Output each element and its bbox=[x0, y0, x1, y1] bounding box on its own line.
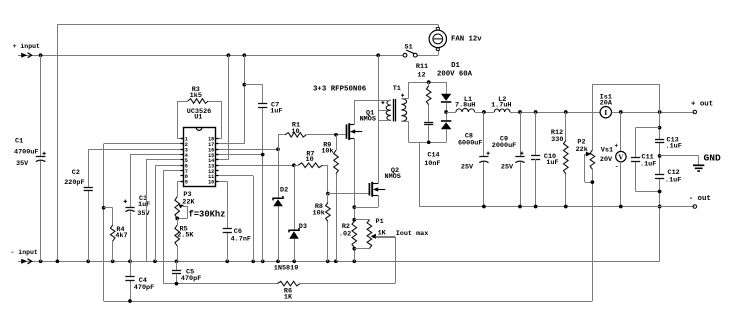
junction P2 wiper/bottom bbox=[591, 180, 595, 184]
wire R3 left leg bbox=[177, 101, 188, 139]
junction ground rail bbox=[39, 259, 43, 263]
wire L1 to L2 bbox=[475, 112, 495, 114]
svg-text:+ input: + input bbox=[13, 43, 40, 50]
wire pin15 to C7 line bbox=[219, 154, 263, 156]
junction P3 wiper/bottom bbox=[175, 217, 179, 221]
svg-text:10: 10 bbox=[208, 180, 214, 186]
resistor R1 bbox=[285, 122, 306, 138]
svg-text:P1: P1 bbox=[376, 218, 384, 226]
diode D3 schottky bbox=[289, 223, 307, 239]
svg-text:1K: 1K bbox=[284, 293, 293, 301]
svg-text:22K: 22K bbox=[182, 199, 195, 207]
junction GND tap bbox=[658, 154, 662, 158]
wire R1 to Q1 gate bbox=[306, 134, 346, 136]
wire S1 to fan bbox=[417, 50, 438, 55]
inductor L2 bbox=[491, 96, 511, 112]
wire pin9 to P3 bbox=[177, 181, 180, 196]
junction pin15/C7 bbox=[261, 153, 265, 157]
label f=30Khz bbox=[189, 210, 226, 220]
node - input terminal bbox=[11, 249, 41, 264]
capacitor C8 bbox=[458, 112, 490, 207]
junction ground rail bbox=[261, 259, 265, 263]
resistor R12 bbox=[551, 112, 568, 207]
svg-text:10nF: 10nF bbox=[424, 160, 440, 168]
wire ammeter bypass top bbox=[592, 84, 659, 86]
resistor R11 bbox=[416, 63, 431, 122]
junction R12 top bbox=[564, 110, 568, 114]
svg-text:NMOS: NMOS bbox=[360, 116, 376, 124]
junction ground rail bbox=[251, 259, 255, 263]
wire pin17 to +input bbox=[219, 55, 245, 144]
svg-text:S1: S1 bbox=[405, 44, 413, 52]
wire D3 vertical bbox=[294, 165, 296, 261]
diode D2 schottky bbox=[273, 187, 288, 207]
junction C11 top branch bbox=[658, 126, 662, 130]
svg-text:220pF: 220pF bbox=[64, 179, 84, 187]
svg-text:GND: GND bbox=[704, 152, 722, 163]
capacitor C5 bbox=[172, 261, 201, 283]
node - out terminal bbox=[689, 195, 711, 208]
junction ground rail bbox=[292, 259, 296, 263]
wire pin3 to C2 bbox=[88, 149, 180, 261]
svg-text:I: I bbox=[604, 108, 607, 117]
wire pin13 line bbox=[219, 165, 294, 167]
capacitor C4 bbox=[125, 277, 154, 293]
svg-text:.02: .02 bbox=[339, 230, 351, 238]
svg-text:470pF: 470pF bbox=[181, 275, 201, 283]
svg-text:Iout max: Iout max bbox=[396, 230, 429, 238]
wire +input rail bbox=[41, 55, 403, 57]
wire pin10 to C6 bbox=[219, 181, 228, 261]
svg-text:10k: 10k bbox=[321, 147, 333, 155]
svg-text:4k7: 4k7 bbox=[115, 232, 127, 240]
junction ground rail bbox=[153, 259, 157, 263]
junction R7/R8/Q2 gate bbox=[326, 192, 330, 196]
node + out terminal bbox=[691, 101, 713, 114]
junction -out vertical bbox=[658, 205, 662, 209]
wire D1 anode bottom bbox=[446, 129, 448, 142]
wire pin5 to ground bbox=[146, 160, 181, 262]
wire secondary bottom bbox=[401, 121, 446, 142]
svg-text:330: 330 bbox=[551, 136, 563, 144]
junction +input/C1 bbox=[39, 53, 43, 57]
potentiometer P1 bbox=[367, 218, 387, 249]
diode D1 top half bbox=[441, 94, 451, 102]
transformer T1 core bbox=[394, 99, 396, 121]
capacitor C14 bbox=[424, 123, 440, 168]
resistor R3 bbox=[188, 86, 209, 103]
svg-text:- out: - out bbox=[689, 195, 711, 203]
svg-text:7.8uH: 7.8uH bbox=[455, 102, 475, 110]
junction C5/R6 line bbox=[175, 282, 179, 286]
svg-text:22k: 22k bbox=[576, 146, 588, 154]
wire P1 top bbox=[354, 219, 369, 221]
meter Vs1 voltmeter bbox=[600, 112, 626, 207]
op-amp U1 UC3526 PWM controller bbox=[181, 108, 219, 187]
svg-text:10: 10 bbox=[291, 128, 299, 136]
svg-text:V: V bbox=[618, 153, 623, 161]
junction +input/center-tap bbox=[376, 53, 380, 57]
junction D1/L1 bbox=[444, 110, 448, 114]
wire primary center tap bbox=[378, 110, 387, 112]
wire pin2 feedback bbox=[104, 144, 593, 302]
capacitor C13 bbox=[655, 137, 682, 151]
ground GND bbox=[660, 152, 721, 171]
junction Vcc/C7 branch bbox=[242, 83, 246, 87]
wire ground rail bbox=[18, 261, 660, 263]
transformer T1 secondary bbox=[401, 94, 407, 122]
junction R2 bottom bbox=[352, 247, 356, 251]
svg-text:.1uF: .1uF bbox=[666, 143, 682, 151]
junction +input/pin17 branch bbox=[242, 53, 246, 57]
capacitor C10 bbox=[531, 112, 559, 207]
svg-text:10k: 10k bbox=[313, 210, 325, 218]
svg-text:-: - bbox=[615, 163, 619, 170]
junction C8 bottom bbox=[482, 205, 486, 209]
svg-text:D1: D1 bbox=[451, 62, 460, 70]
junction snubber bottom bbox=[427, 140, 431, 144]
junction pin2/R4 bbox=[102, 206, 106, 210]
capacitor C11 bbox=[631, 153, 656, 168]
svg-text:35V: 35V bbox=[137, 210, 150, 218]
capacitor C7 bbox=[258, 101, 282, 115]
wire Q2 source bbox=[354, 195, 378, 207]
junction ground rail bbox=[128, 259, 132, 263]
capacitor C1 bbox=[14, 138, 46, 169]
svg-text:1k5: 1k5 bbox=[190, 92, 202, 100]
wire R3 right leg bbox=[208, 101, 221, 139]
wire +out line bbox=[510, 112, 600, 114]
wire C4 branch bbox=[130, 261, 132, 301]
resistor R7 bbox=[298, 150, 322, 167]
capacitor C12 bbox=[655, 169, 681, 184]
wire C7 branch bbox=[244, 85, 262, 262]
svg-text:20A: 20A bbox=[600, 99, 613, 107]
svg-text:200V 60A: 200V 60A bbox=[437, 71, 473, 79]
svg-text:1uF: 1uF bbox=[546, 159, 558, 167]
capacitor C3 bbox=[124, 195, 151, 218]
svg-text:35V: 35V bbox=[16, 160, 29, 168]
node + input terminal bbox=[13, 43, 41, 58]
wire output node to L1 bbox=[446, 112, 456, 114]
wire pin6 to ground bbox=[155, 165, 181, 261]
junction C9 top bbox=[518, 110, 522, 114]
junction Q1/Q2 sources bbox=[352, 205, 356, 209]
wire D1 cathodes bbox=[446, 102, 448, 120]
svg-text:4.7nF: 4.7nF bbox=[231, 236, 251, 244]
potentiometer P2 bbox=[576, 139, 595, 183]
label D1 bbox=[437, 62, 473, 79]
junction pin13/D3 bbox=[292, 163, 296, 167]
wire pin16 to D2/R1 bbox=[219, 149, 279, 151]
wire P3 to R5 bbox=[177, 218, 179, 225]
svg-text:3+3 RFP50N06: 3+3 RFP50N06 bbox=[313, 86, 367, 94]
wire Q2 drain / center-tap line bbox=[378, 55, 380, 183]
junction C9 bottom bbox=[518, 205, 522, 209]
inductor L1 bbox=[455, 96, 475, 112]
svg-text:4700uF: 4700uF bbox=[14, 149, 38, 157]
label 3+3 RFP50N06 bbox=[313, 86, 367, 94]
switch S1 bbox=[403, 44, 417, 58]
resistor R4 bbox=[110, 225, 127, 241]
wire D1 anode top bbox=[446, 82, 448, 94]
svg-text:.1uF: .1uF bbox=[640, 160, 656, 168]
svg-text:NMOS: NMOS bbox=[385, 173, 401, 181]
junction ground rail bbox=[352, 259, 356, 263]
wire D2 vertical bbox=[278, 135, 280, 261]
svg-text:20V: 20V bbox=[600, 156, 613, 164]
wire P1 wiper tail bbox=[376, 236, 396, 239]
svg-text:470pF: 470pF bbox=[134, 284, 154, 292]
wire R1 left bbox=[278, 134, 285, 136]
transformer T1 primary bbox=[381, 100, 390, 120]
wire P2 top bbox=[592, 84, 594, 150]
wire R6 to P1 wiper bbox=[300, 237, 396, 284]
svg-text:- input: - input bbox=[11, 249, 38, 256]
svg-text:1uF: 1uF bbox=[270, 108, 282, 116]
wire -out rail bbox=[419, 142, 695, 206]
label T1 bbox=[393, 85, 401, 93]
svg-text:f=30Khz: f=30Khz bbox=[189, 210, 226, 220]
svg-text:D3: D3 bbox=[299, 223, 307, 231]
junction R2 top bbox=[352, 218, 356, 222]
junction ground rail bbox=[326, 259, 330, 263]
svg-text:T1: T1 bbox=[393, 85, 401, 93]
wire C1 branch bbox=[40, 55, 42, 261]
junction ground rail bbox=[334, 259, 338, 263]
svg-text:2.5K: 2.5K bbox=[177, 231, 194, 239]
svg-text:25V: 25V bbox=[501, 164, 514, 172]
wire R7 to R8 node bbox=[323, 165, 328, 193]
wire pin7 to C5/R6 net bbox=[163, 171, 277, 284]
label Iout max bbox=[396, 230, 429, 238]
wire primary top to Q1 bbox=[354, 100, 391, 102]
junction +input/pin14 branch bbox=[227, 53, 231, 57]
svg-text:+: + bbox=[614, 142, 618, 149]
potentiometer P3 bbox=[175, 191, 196, 218]
fan motor FAN 12v bbox=[429, 28, 482, 51]
wire fan return rail bbox=[57, 24, 438, 261]
junction C4/feedback line bbox=[128, 299, 132, 303]
junction +out vertical bbox=[658, 110, 662, 114]
junction ground rail bbox=[86, 259, 90, 263]
svg-text:C14: C14 bbox=[427, 152, 439, 160]
svg-text:R11: R11 bbox=[416, 63, 428, 71]
wire pin11 to ground bbox=[219, 176, 254, 262]
wire ammeter right bbox=[612, 112, 695, 114]
junction ground rail bbox=[56, 259, 60, 263]
wire pin4 to C3 bbox=[130, 155, 181, 262]
svg-text:C1: C1 bbox=[15, 138, 23, 146]
svg-text:1uF: 1uF bbox=[138, 201, 150, 209]
wire R7 left lead bbox=[294, 165, 298, 167]
wire Q1 source bbox=[354, 139, 356, 220]
capacitor C2 bbox=[64, 169, 93, 191]
svg-text:U1: U1 bbox=[194, 114, 202, 122]
svg-text:2000uF: 2000uF bbox=[492, 142, 516, 150]
junction C8 top bbox=[482, 110, 486, 114]
wire C11 branch bbox=[636, 128, 660, 192]
junction C10 bottom bbox=[534, 205, 538, 209]
transistor Q1 NMOS bbox=[347, 110, 376, 140]
svg-text:12: 12 bbox=[417, 72, 425, 80]
capacitor C9 bbox=[492, 112, 525, 207]
svg-text:6000uF: 6000uF bbox=[458, 140, 482, 148]
svg-text:1.7uH: 1.7uH bbox=[491, 102, 511, 110]
wire R4 leads bbox=[104, 208, 113, 262]
meter Is1 ammeter bbox=[600, 93, 613, 118]
wire P2 bottom bbox=[592, 169, 594, 301]
junction pin16/D2 bbox=[276, 147, 280, 151]
wire pin14 to +input bbox=[219, 55, 229, 160]
wire Q2 gate line bbox=[328, 193, 370, 195]
wire secondary top bbox=[401, 82, 446, 99]
label 1N5819 bbox=[274, 265, 298, 273]
junction ground rail bbox=[225, 259, 229, 263]
wire P1 bottom bbox=[354, 248, 369, 250]
resistor R9 bbox=[321, 135, 338, 261]
junction ground rail bbox=[111, 259, 115, 263]
svg-text:10: 10 bbox=[306, 156, 314, 164]
capacitor C6 bbox=[223, 228, 251, 244]
svg-text:FAN 12v: FAN 12v bbox=[451, 36, 482, 44]
resistor R5 bbox=[175, 225, 195, 261]
junction ground rail bbox=[175, 259, 179, 263]
wire +out vertical bbox=[659, 84, 661, 261]
junction Vs1 bottom bbox=[619, 205, 623, 209]
svg-text:1N5819: 1N5819 bbox=[274, 265, 298, 273]
svg-text:Vs1: Vs1 bbox=[601, 146, 613, 154]
resistor R8 bbox=[313, 194, 331, 262]
resistor R2 bbox=[339, 221, 357, 261]
resistor R6 bbox=[278, 281, 300, 301]
wire primary bottom bbox=[378, 120, 388, 122]
diode D1 bottom half bbox=[441, 121, 451, 129]
junction ground rail bbox=[276, 259, 280, 263]
svg-text:C2: C2 bbox=[72, 169, 80, 177]
junction Vs1 top bbox=[619, 110, 623, 114]
junction snubber top bbox=[427, 80, 431, 84]
svg-text:D2: D2 bbox=[280, 187, 288, 195]
transistor Q2 NMOS bbox=[369, 167, 400, 197]
junction R1/R9/Q1 gate bbox=[334, 133, 338, 137]
junction R12 bottom bbox=[564, 205, 568, 209]
svg-text:9: 9 bbox=[185, 180, 188, 186]
svg-text:25V: 25V bbox=[461, 164, 474, 172]
junction C11 bottom branch bbox=[658, 190, 662, 194]
svg-text:.1uF: .1uF bbox=[665, 176, 681, 184]
junction C10 top bbox=[534, 110, 538, 114]
svg-text:+ out: + out bbox=[691, 101, 713, 109]
wire Q1 drain bbox=[354, 100, 356, 124]
